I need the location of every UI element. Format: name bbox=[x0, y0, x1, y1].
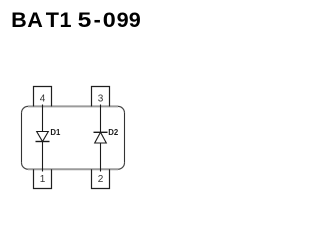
pin 1 box bbox=[34, 169, 52, 188]
svg-text:A: A bbox=[27, 7, 43, 32]
svg-text:2: 2 bbox=[98, 174, 104, 185]
pin 3 box bbox=[92, 87, 110, 107]
wire D2 anode to pin 2 bbox=[100, 143, 102, 172]
svg-text:D1: D1 bbox=[50, 128, 61, 137]
diode D1 (anode top, cathode bottom) bbox=[36, 132, 50, 142]
svg-text:D2: D2 bbox=[108, 128, 119, 137]
svg-text:0: 0 bbox=[103, 7, 116, 32]
wire pin 3 to D2 cathode bbox=[100, 105, 102, 133]
svg-text:1: 1 bbox=[60, 7, 72, 32]
svg-text:3: 3 bbox=[98, 94, 104, 105]
svg-text:4: 4 bbox=[40, 94, 46, 105]
pin 4 box bbox=[34, 87, 52, 107]
svg-text:-: - bbox=[94, 7, 101, 32]
svg-text:B: B bbox=[11, 7, 27, 32]
svg-text:5: 5 bbox=[78, 7, 92, 32]
package body SOT-143 outline bbox=[22, 106, 125, 169]
wire pin 4 to D1 anode bbox=[42, 105, 44, 132]
svg-text:T: T bbox=[46, 7, 59, 32]
pin 2 box bbox=[92, 169, 110, 188]
svg-text:1: 1 bbox=[40, 174, 46, 185]
wire D1 cathode to pin 1 bbox=[42, 142, 44, 172]
svg-text:9: 9 bbox=[129, 7, 141, 32]
diode D2 (cathode top, anode bottom) bbox=[94, 132, 108, 143]
svg-text:9: 9 bbox=[117, 7, 129, 32]
